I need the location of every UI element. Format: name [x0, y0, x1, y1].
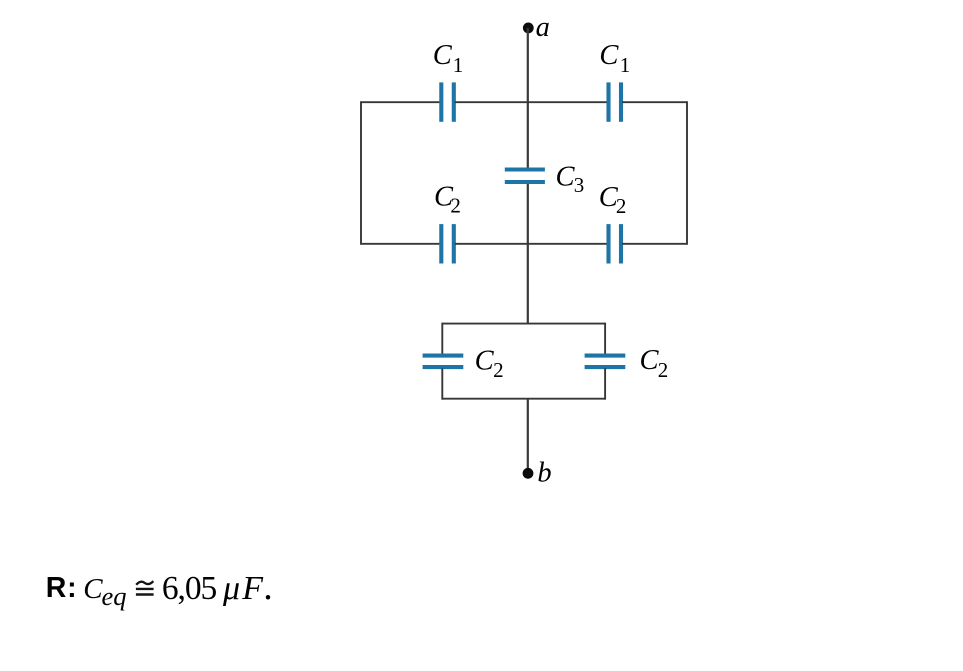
svg-text:1: 1 [620, 53, 631, 77]
svg-text:.: . [263, 566, 273, 608]
node a [523, 23, 534, 34]
svg-text:C: C [83, 573, 103, 605]
svg-text:C: C [556, 162, 576, 193]
svg-text:eq: eq [102, 581, 127, 611]
svg-text:R:: R: [46, 572, 78, 604]
wire: lower box right side upper segment [604, 323, 606, 355]
wire: capacitor C3 bottom plate down to lower rail [527, 184, 529, 244]
svg-text:2: 2 [616, 194, 627, 218]
label C2 (lower left) [475, 346, 504, 383]
wire: top rail middle segment [455, 101, 608, 103]
wire: node a down to capacitor C3 top plate [527, 28, 529, 168]
svg-text:2: 2 [493, 358, 504, 382]
wire: center vertical between upper box and lower box [527, 244, 529, 324]
wire: bottom rail right segment [622, 243, 687, 245]
wire: lower box left side upper segment [441, 323, 443, 355]
svg-text:C: C [433, 40, 453, 71]
label b [537, 458, 551, 489]
label C3 [556, 162, 585, 198]
node b [523, 468, 534, 479]
svg-text:C: C [599, 40, 619, 71]
wire: left side of upper box [360, 101, 362, 245]
svg-text:1: 1 [453, 53, 464, 77]
capacitor C2 (middle right) plates [609, 224, 622, 263]
capacitor C1 (top left) plates [441, 82, 454, 121]
svg-text:2: 2 [450, 193, 461, 217]
label C2 (lower right) [640, 345, 669, 382]
capacitor C3 plates [505, 170, 545, 183]
wire: bottom rail middle segment [455, 243, 608, 245]
label C1 (top left) [433, 40, 464, 77]
label a [536, 12, 550, 43]
wire: right side of upper box [686, 101, 688, 245]
capacitor C2 (lower left) plates [423, 356, 464, 368]
capacitor C2 (middle left) plates [441, 224, 454, 263]
wire: lower box right side lower segment [604, 368, 606, 399]
answer text: R: Ceq ≅ 6,05 µF. [46, 566, 273, 611]
label C2 (middle left) [434, 181, 461, 217]
capacitor C1 (top right) plates [609, 82, 622, 121]
svg-text:a: a [536, 12, 550, 43]
wire: lower box left side lower segment [441, 368, 443, 399]
svg-text:2: 2 [658, 358, 669, 382]
svg-text:b: b [537, 458, 551, 489]
capacitor C2 (lower right) plates [585, 356, 626, 368]
wire: top rail right segment [622, 101, 687, 103]
svg-text:μF: μF [222, 570, 265, 607]
svg-text:6,05: 6,05 [162, 570, 217, 607]
label C2 (middle right) [599, 182, 627, 218]
wire: top rail left segment [361, 101, 441, 103]
wire: lower box down to node b [527, 399, 529, 474]
wire: lower box bottom edge [442, 398, 605, 400]
svg-text:C: C [475, 346, 495, 377]
wire: bottom rail left segment [361, 243, 441, 245]
label C1 (top right) [599, 40, 630, 77]
svg-text:3: 3 [574, 173, 585, 197]
wire: lower box top edge [442, 323, 605, 325]
svg-text:C: C [640, 345, 660, 376]
